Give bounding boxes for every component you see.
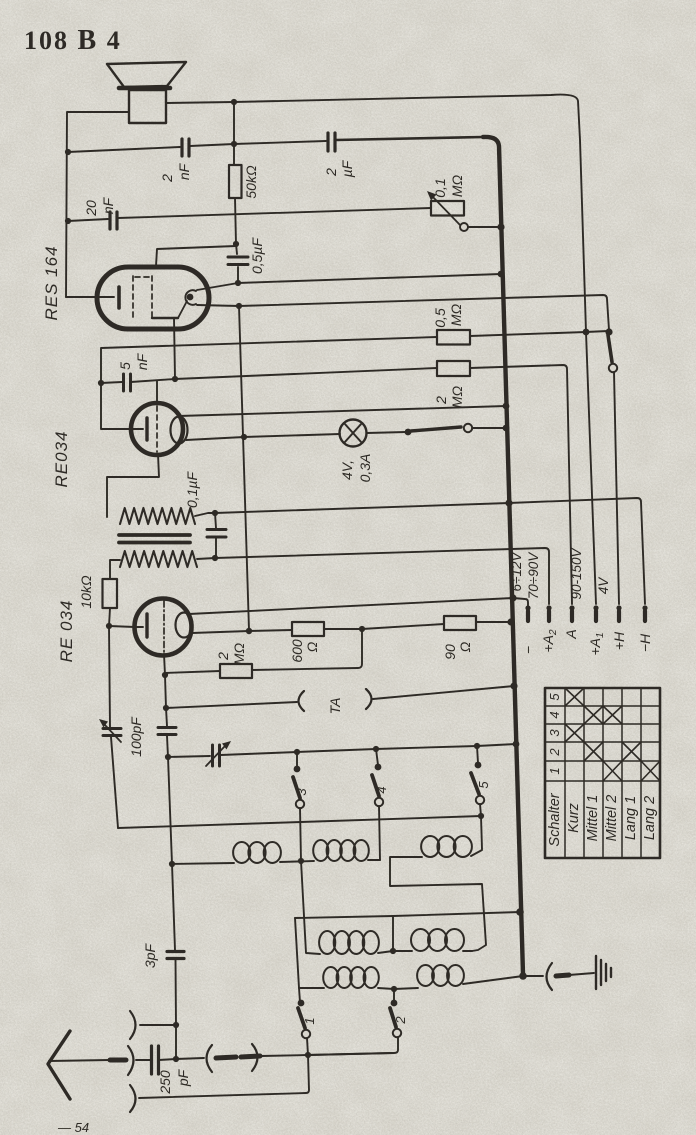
wire h3 chassis <box>295 912 520 918</box>
wire rail1 to bus <box>221 744 516 755</box>
transformer core <box>119 535 190 543</box>
coil L3 <box>421 836 472 857</box>
node h3 at bus <box>516 908 524 916</box>
node 5nF left <box>98 380 104 386</box>
svg-text:— 54: — 54 <box>57 1120 89 1135</box>
switch SB pivot <box>405 429 412 436</box>
node tube3 top at bus <box>509 594 516 601</box>
earth ground symbol <box>596 956 611 989</box>
svg-text:1: 1 <box>302 1017 317 1024</box>
wire row1 <box>172 860 380 864</box>
transformer secondary winding <box>120 551 197 567</box>
terminal 2 <box>546 605 551 610</box>
node row2 mid <box>390 948 396 954</box>
switch table frame <box>545 688 660 858</box>
resistor 2 MOhm grid leak <box>220 664 252 678</box>
wire TA right to bus <box>373 686 514 699</box>
svg-text:1: 1 <box>547 767 562 774</box>
tube1 anode loop <box>185 290 196 305</box>
node rail2 S5 <box>478 813 484 819</box>
wire 20nF left <box>68 219 108 221</box>
variable capacitor <box>213 745 220 766</box>
wire 2M up to 600 rail <box>252 629 362 670</box>
node grid-cap <box>233 241 239 247</box>
svg-text:MΩ: MΩ <box>449 174 465 197</box>
switch S1 lever <box>298 1008 305 1028</box>
wire 0,5M to switch pivot <box>470 331 608 336</box>
svg-text:pF: pF <box>175 1068 191 1087</box>
node left rail 20nF <box>65 218 71 224</box>
wire terminal1 stub <box>513 598 528 607</box>
svg-text:2: 2 <box>393 1016 408 1025</box>
switch SA contact <box>609 364 617 372</box>
node plate-top at bus <box>503 403 510 410</box>
svg-text:600: 600 <box>289 639 305 663</box>
tube1 cathode <box>99 296 114 298</box>
capacitor 250pF <box>152 1046 159 1074</box>
wire h3 left corner to switch1 <box>295 918 300 1002</box>
node rail1 at bus <box>513 741 520 748</box>
svg-text:5: 5 <box>547 693 562 701</box>
wire grid line to row1 <box>168 757 172 864</box>
node long-vertical at 600 rail <box>246 628 252 634</box>
wire 5nF right <box>131 379 175 382</box>
node antenna line <box>173 1056 179 1062</box>
capacitor 0,5uF <box>236 244 237 254</box>
svg-text:MΩ: MΩ <box>449 385 465 408</box>
node TA at bus <box>510 682 517 689</box>
wire grid stub tube2 <box>156 381 158 404</box>
svg-text:nF: nF <box>176 162 192 180</box>
wire 2uF to bus top <box>336 137 483 140</box>
socket lower branch <box>139 1055 309 1098</box>
capacitor 3pF <box>167 952 184 959</box>
wire switch3 line down to row2 <box>301 861 320 954</box>
wire tube1 cathode lead <box>66 296 99 298</box>
svg-text:Schalter: Schalter <box>547 792 563 846</box>
switch S4 contact <box>375 798 383 806</box>
svg-text:4: 4 <box>374 786 389 793</box>
socket arc inline <box>128 1046 134 1075</box>
terminal 1 <box>525 605 530 610</box>
svg-text:20: 20 <box>83 200 99 217</box>
resistor 2 MOhm <box>437 361 470 376</box>
svg-text:Ω: Ω <box>457 641 473 652</box>
svg-text:−: − <box>520 646 536 654</box>
terminal 5 <box>616 605 621 610</box>
tube3 plate ellipse <box>176 613 193 638</box>
bus (thick vertical rail) <box>483 137 523 974</box>
wire rail2 <box>118 816 481 828</box>
node row1 switch3 <box>298 858 304 864</box>
wire vertical x234 top <box>233 102 235 165</box>
switch S3 lever <box>293 777 300 798</box>
wire row3 to S2 <box>393 989 395 1001</box>
wire tuning node to variable cap <box>168 756 210 757</box>
node 90 at bus <box>507 618 514 625</box>
switch S2 contact <box>393 1029 401 1037</box>
svg-text:Mittel 1: Mittel 1 <box>585 795 601 842</box>
resistor 600 Ohm <box>292 622 324 636</box>
node bus bottom <box>519 972 527 980</box>
svg-text:4: 4 <box>547 711 562 718</box>
node SB at bus <box>503 425 510 432</box>
node anode lower <box>236 303 242 309</box>
svg-text:108 B 4: 108 B 4 <box>24 25 122 56</box>
wire 2nF right to 2uF <box>190 141 326 146</box>
node socket branch <box>173 1022 179 1028</box>
node 0,5uF bottom / anode net <box>235 280 241 286</box>
svg-text:Lang 1: Lang 1 <box>623 796 639 840</box>
switch S5 contact <box>476 796 484 804</box>
node rail1 S5 <box>474 743 480 749</box>
wire SB to bus <box>472 427 504 429</box>
switch SA lever <box>608 335 612 362</box>
plug pair arcs <box>207 1045 213 1072</box>
svg-text:2: 2 <box>433 396 449 405</box>
svg-text:3: 3 <box>294 788 309 796</box>
capacitor 100pF trimmer <box>103 729 121 736</box>
wire tube3 plate bottom to 600 ohm <box>192 630 292 633</box>
wire pot to bus <box>468 226 500 228</box>
node primary at bus <box>505 499 512 506</box>
coil L4 <box>319 931 379 954</box>
svg-text:0,3A: 0,3A <box>357 454 373 483</box>
wire row3 <box>299 988 418 989</box>
coil L6 <box>323 967 379 988</box>
svg-text:nF: nF <box>134 352 150 370</box>
pot arrow <box>431 195 461 226</box>
node 2M join <box>359 626 365 632</box>
switch S4 lever <box>372 775 379 796</box>
switch SB lever <box>411 427 461 431</box>
switch S1 pivot <box>298 1000 305 1007</box>
tube2 grid dashed <box>156 406 158 452</box>
TA socket arcs <box>299 691 305 711</box>
svg-text:0,5: 0,5 <box>432 308 448 328</box>
svg-text:Mittel 2: Mittel 2 <box>604 795 620 842</box>
table X marks <box>565 688 660 781</box>
resistor 50kOhm <box>229 165 242 198</box>
node anode net at bus <box>498 271 505 278</box>
terminal 3 <box>569 605 574 610</box>
wire primary right to node <box>195 513 215 516</box>
wire 20nF to potentiometer <box>118 208 431 218</box>
wire 3pF down to sockets <box>175 960 178 1059</box>
wire grid node to 2M bottom resistor <box>165 671 220 673</box>
node 5nF right <box>172 376 178 382</box>
earth plug pin <box>556 975 569 976</box>
switch SB contact <box>464 424 472 432</box>
coil L1 <box>233 842 281 863</box>
wire secondary node to +A2 terminal <box>215 548 549 604</box>
node long-vertical at lamp wire <box>241 434 247 440</box>
wire 90 to bus <box>476 621 511 623</box>
wire 10k to cathode node <box>109 608 110 626</box>
svg-text:4V,: 4V, <box>339 460 355 480</box>
switch S2 pivot <box>391 1000 398 1007</box>
node pot at bus <box>497 223 504 230</box>
plug pair pins <box>216 1057 236 1058</box>
node left rail 2nF <box>65 149 71 155</box>
resistor 90 Ohm <box>444 616 476 630</box>
terminal 6 <box>642 605 647 610</box>
svg-text:100pF: 100pF <box>128 716 144 757</box>
switch S4 pivot <box>376 749 378 765</box>
svg-text:−H: −H <box>637 633 653 652</box>
wire primary node to bus and -H terminal <box>215 498 645 604</box>
wire lamp to switch SB <box>367 432 406 433</box>
svg-text:TA: TA <box>327 698 343 715</box>
wire tube1 plate to 5nF node <box>174 318 175 378</box>
svg-text:MΩ: MΩ <box>448 303 464 326</box>
wire L7 right to bus bottom <box>463 976 523 984</box>
pot wiper contact <box>460 223 468 231</box>
node 0,1uF top <box>212 510 218 516</box>
wire 50k to node <box>235 198 236 244</box>
switch S5 pivot <box>477 746 478 763</box>
antenna <box>48 1031 70 1099</box>
tube3 grid dashdot <box>163 601 165 654</box>
wire tube2 plate top to bus <box>179 406 506 416</box>
wire S1 to antenna rail <box>307 1038 308 1055</box>
tube RE 034 (RF) envelope <box>135 599 192 656</box>
wire anode net to bus <box>197 274 501 290</box>
wire 2nF left <box>68 147 180 152</box>
wire 5nF left <box>101 382 122 383</box>
svg-text:0,1: 0,1 <box>432 178 448 197</box>
earth socket arc <box>547 963 553 990</box>
wire grid-cap to tube1 top <box>156 246 236 266</box>
svg-text:µF: µF <box>339 159 355 177</box>
capacitor 5nF <box>124 374 131 391</box>
tube2 cathode <box>133 428 143 430</box>
wire speaker left to left rail <box>66 112 129 297</box>
svg-text:2: 2 <box>547 748 562 757</box>
node row1 left <box>169 861 175 867</box>
svg-text:MΩ: MΩ <box>231 642 247 665</box>
capacitor 0,1uF <box>215 513 216 528</box>
coil L2 <box>313 840 369 861</box>
tube RE034 (detector) envelope <box>131 403 183 455</box>
switch S5 lever <box>471 773 479 794</box>
wire h3 stub down <box>392 916 394 951</box>
wire TA left <box>166 702 297 708</box>
wire antenna to plug <box>49 1060 110 1061</box>
tube3 cathode <box>109 626 143 627</box>
wire grid line down TA node <box>165 675 166 708</box>
svg-text:+H: +H <box>611 631 627 650</box>
svg-text:3: 3 <box>547 729 562 737</box>
svg-text:RE034: RE034 <box>52 431 71 488</box>
svg-text:90: 90 <box>442 644 458 660</box>
node at +A1 line <box>583 329 590 336</box>
resistor 0,5 MOhm <box>437 330 470 345</box>
wire tube3 grid below <box>164 654 165 675</box>
wire trimmer down to rail2 <box>111 737 118 828</box>
node rail1 S4 <box>373 746 379 752</box>
switch S3 contact <box>296 800 304 808</box>
switch S1 contact <box>302 1030 310 1038</box>
switch S2 lever <box>390 1008 396 1027</box>
wire 2M to terminal A <box>470 365 572 604</box>
resistor 10 kOhm <box>103 579 118 608</box>
wire row1 to 3pF <box>172 864 175 950</box>
tube1 anode dot <box>187 294 194 301</box>
svg-text:5: 5 <box>476 781 491 789</box>
node tube3 grid bottom <box>162 672 168 678</box>
wire cathode node down to trimmer <box>109 626 110 727</box>
svg-text:Kurz: Kurz <box>566 802 582 833</box>
terminal 4 <box>593 605 598 610</box>
potentiometer 0,1 MOhm <box>431 201 464 216</box>
node TA branch <box>163 705 169 711</box>
capacitor 2uF <box>328 133 335 151</box>
svg-text:Lang 2: Lang 2 <box>642 796 658 840</box>
wire anode net lower to switch pivot <box>197 295 609 330</box>
wire bus to earth socket <box>523 975 543 977</box>
node row3 mid <box>391 986 397 992</box>
svg-text:250: 250 <box>157 1070 173 1095</box>
coil L5 <box>411 929 464 951</box>
switch S3 pivot <box>296 752 298 767</box>
wire long vertical anode net down to 600 ohm rail <box>239 306 249 630</box>
svg-text:0,5µF: 0,5µF <box>249 237 265 275</box>
svg-text:70÷90V: 70÷90V <box>526 551 541 599</box>
tube2 plate ellipse <box>171 417 188 444</box>
wire secondary left to 10k <box>110 560 120 579</box>
transformer primary winding <box>120 508 195 524</box>
trimmer arrow <box>104 724 121 742</box>
wire plug to earth <box>569 973 594 975</box>
wire tube3 plate top to bus <box>189 598 513 614</box>
wire L5 right <box>463 950 472 952</box>
table columns <box>565 688 641 858</box>
wire speaker right / top wire to +A1 bend <box>166 95 596 604</box>
svg-text:RES 164: RES 164 <box>42 245 61 320</box>
svg-text:A: A <box>563 629 579 639</box>
svg-text:6÷12V: 6÷12V <box>509 551 524 592</box>
svg-text:Ω: Ω <box>304 641 320 652</box>
wire 600 to 90 <box>324 624 444 629</box>
svg-text:4V: 4V <box>596 576 611 595</box>
wire 5nF node to 2M resistor and terminal A <box>175 368 437 379</box>
wire L4 to L5 <box>378 951 412 953</box>
svg-text:nF: nF <box>100 196 116 214</box>
node S1 rail <box>305 1052 311 1058</box>
node rail1 S3 <box>294 749 300 755</box>
wire SA to +H terminal <box>614 372 619 604</box>
table rows <box>545 706 660 781</box>
svg-text:2: 2 <box>323 168 339 177</box>
svg-text:2: 2 <box>159 174 175 183</box>
switch SA pivot <box>605 328 612 335</box>
wire S3 down <box>300 808 301 861</box>
tube RES164 envelope <box>97 267 209 329</box>
node tube3 cathode <box>106 623 112 629</box>
svg-text:3pF: 3pF <box>142 942 158 968</box>
wire L3 right to S5 <box>471 850 482 856</box>
wire tube2 plate to lamp <box>186 434 340 440</box>
variable cap arrow <box>206 746 225 766</box>
capacitor 20nF <box>110 212 117 229</box>
wire S4 down <box>379 806 380 860</box>
lamp 4V 0,3A <box>340 420 367 447</box>
wire plug to S1 node <box>262 1053 392 1056</box>
svg-text:10kΩ: 10kΩ <box>78 575 94 609</box>
plug pin inline <box>110 1058 126 1063</box>
tube1 grid dashes <box>133 276 152 318</box>
tube1 plate <box>152 317 178 319</box>
socket upper branch <box>140 1024 176 1026</box>
wire L3 left to h2 to E right <box>390 857 486 951</box>
svg-text:RE 034: RE 034 <box>57 600 76 663</box>
svg-text:2: 2 <box>215 652 231 661</box>
node junction x234 2nF <box>231 141 237 147</box>
node 0,1uF bottom <box>212 555 218 561</box>
capacitor 2nF <box>182 139 189 156</box>
wire socket to 250pF <box>136 1059 151 1061</box>
coil L7 <box>417 965 464 986</box>
wire S5 down <box>480 804 482 849</box>
wire secondary right to node <box>197 558 215 559</box>
wire S2 to antenna rail <box>308 1037 398 1055</box>
speaker LS <box>107 62 186 123</box>
capacitor grid series <box>166 708 167 726</box>
wire 250pF to node <box>159 1058 204 1060</box>
node tuning branch <box>165 754 171 760</box>
node top wire x234 <box>231 99 237 105</box>
svg-text:0,1µF: 0,1µF <box>184 471 200 509</box>
svg-text:90-150V: 90-150V <box>569 546 584 599</box>
svg-text:50kΩ: 50kΩ <box>243 165 259 199</box>
wire cathode rail to 0,5M <box>101 337 437 429</box>
svg-text:5: 5 <box>117 362 133 370</box>
wire tube2 bottom to transformer <box>107 454 159 517</box>
